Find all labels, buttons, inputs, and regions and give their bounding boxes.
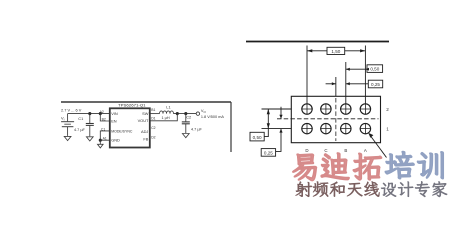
wire: GND stem	[99, 140, 101, 144]
wire: input rail VI to VIN	[68, 113, 110, 115]
arrowhead 1,50 right	[360, 49, 365, 52]
pad C2	[320, 103, 331, 114]
svg-text:ADJ: ADJ	[141, 129, 148, 134]
center line horizontal (dashed)	[277, 118, 379, 120]
ground (C2)	[182, 134, 189, 138]
node: junction VOUT sense	[176, 112, 179, 115]
svg-text:C1: C1	[78, 116, 83, 121]
package figure text	[253, 49, 390, 156]
wire: SW to L1	[150, 113, 160, 115]
svg-text:VIN: VIN	[111, 111, 118, 116]
pad B2	[340, 103, 351, 114]
figure top border	[246, 41, 389, 43]
svg-text:2: 2	[386, 107, 389, 112]
svg-text:C1: C1	[101, 128, 105, 132]
svg-text:TPS62671-Q1: TPS62671-Q1	[118, 104, 146, 108]
arrowhead 0,50 left up	[267, 109, 270, 114]
extension line center stub	[335, 77, 337, 96]
extension line col A	[364, 46, 366, 105]
ground (battery)	[64, 136, 71, 140]
dimension 0,25 left lower segment	[276, 129, 281, 152]
pad A1	[360, 123, 371, 134]
dimension 0,25 top line	[346, 83, 369, 85]
arrowhead 0,25 left up	[279, 129, 282, 133]
dimension box 1,50	[327, 47, 345, 54]
svg-text:C2: C2	[151, 126, 155, 130]
pad D2	[301, 103, 312, 114]
A1 pointer arrow	[370, 136, 386, 158]
dimension box 0,25 left	[261, 149, 275, 157]
svg-text:L1: L1	[166, 105, 170, 110]
ground (IC GND)	[98, 144, 104, 148]
svg-text:B2: B2	[102, 117, 106, 121]
extension line row 2	[262, 108, 292, 110]
wire: L1 to output terminal	[174, 113, 197, 115]
wire: VOUT loop	[150, 114, 178, 121]
svg-text:D1: D1	[151, 117, 155, 121]
dimension 0,50 left vertical line	[267, 109, 269, 129]
schematic text labels	[61, 104, 224, 143]
svg-text:MODE/SYNC: MODE/SYNC	[111, 129, 133, 133]
dimension box 0,25 top	[368, 80, 382, 88]
svg-text:C: C	[324, 148, 327, 153]
svg-text:0,25: 0,25	[264, 151, 273, 156]
svg-text:SW: SW	[142, 111, 149, 116]
svg-text:4.7 µF: 4.7 µF	[191, 127, 203, 131]
svg-text:1,50: 1,50	[331, 49, 340, 54]
dimension 0,50 top line	[346, 68, 367, 70]
op-amp U1 TPS62671 IC box	[110, 108, 150, 147]
arrowhead 1,50 left	[307, 49, 312, 52]
svg-text:FB: FB	[143, 136, 148, 141]
watermark line 2: tagline text	[296, 181, 448, 197]
figure frame top border	[61, 101, 231, 103]
arrowhead 0,25 left down	[279, 115, 282, 119]
node: junction at EN drop	[99, 112, 102, 115]
dimension 1,50 line left part	[307, 50, 327, 52]
pad B1	[340, 123, 351, 134]
svg-text:4.7 µF: 4.7 µF	[74, 128, 86, 132]
svg-text:B: B	[344, 148, 347, 153]
svg-text:A: A	[364, 148, 367, 153]
package outline rectangle	[291, 96, 380, 142]
terminal VO circle	[196, 112, 199, 115]
svg-text:1: 1	[386, 126, 389, 131]
land pads: 8 circles with crosshairs	[301, 103, 371, 134]
extension line col B	[345, 62, 347, 104]
pad A2	[360, 103, 371, 114]
arrowhead 0,25 top tail	[332, 82, 336, 85]
inductor L1	[160, 111, 174, 114]
svg-text:A1: A1	[103, 137, 107, 141]
node: junction at C1	[88, 112, 91, 115]
svg-text:VO: VO	[201, 108, 207, 114]
svg-text:1.8 V/500 mA: 1.8 V/500 mA	[201, 115, 224, 119]
svg-text:D: D	[305, 148, 308, 153]
pad C1	[320, 123, 331, 134]
ground (C1)	[86, 137, 93, 141]
dimension 0,25 top tail	[326, 83, 336, 85]
center line vertical (dashed)	[335, 98, 337, 141]
node: junction C2	[184, 112, 187, 115]
wire: MODE/SYNC + GND to ground	[100, 131, 110, 140]
svg-text:D2: D2	[151, 135, 155, 139]
extension line col D	[306, 46, 308, 105]
extension line row 1	[262, 128, 292, 130]
svg-text:1 µH: 1 µH	[162, 116, 170, 120]
pad D1	[301, 123, 312, 134]
dimension 1,50 line right part	[345, 50, 366, 52]
battery VI	[61, 114, 74, 136]
dimension box 0,50 top	[367, 65, 383, 73]
wire: EN tie to VIN rail	[100, 114, 110, 121]
svg-text:0,25: 0,25	[371, 82, 380, 87]
capacitor C1	[86, 114, 94, 137]
watermark line 1: EDAtop logo text	[293, 152, 443, 181]
svg-text:0,50: 0,50	[253, 135, 262, 140]
arrowhead 0,50 left down	[267, 123, 270, 128]
svg-text:EN: EN	[111, 118, 117, 123]
leader 0,50 left	[264, 129, 268, 137]
dimension 0,25 left upper segment	[280, 107, 282, 119]
A1 pointer arrowhead	[368, 133, 373, 138]
arrowhead 0,50 top right	[365, 68, 369, 71]
dimension box 0,50 left	[250, 132, 264, 141]
arrowhead 0,50 top left	[346, 68, 350, 71]
svg-text:A2: A2	[100, 110, 104, 114]
svg-text:B1: B1	[151, 108, 155, 112]
svg-text:0,50: 0,50	[370, 67, 379, 72]
node: junction at GND pin	[99, 139, 102, 142]
svg-text:VI: VI	[61, 116, 65, 122]
svg-text:2.7 V ... 6 V: 2.7 V ... 6 V	[61, 107, 82, 112]
svg-text:C2: C2	[186, 115, 191, 120]
arrowhead 0,25 top	[346, 82, 350, 85]
svg-text:GND: GND	[111, 138, 120, 143]
svg-text:VOUT: VOUT	[138, 118, 149, 123]
capacitor C2	[182, 114, 190, 133]
figure frame right border	[230, 102, 232, 152]
